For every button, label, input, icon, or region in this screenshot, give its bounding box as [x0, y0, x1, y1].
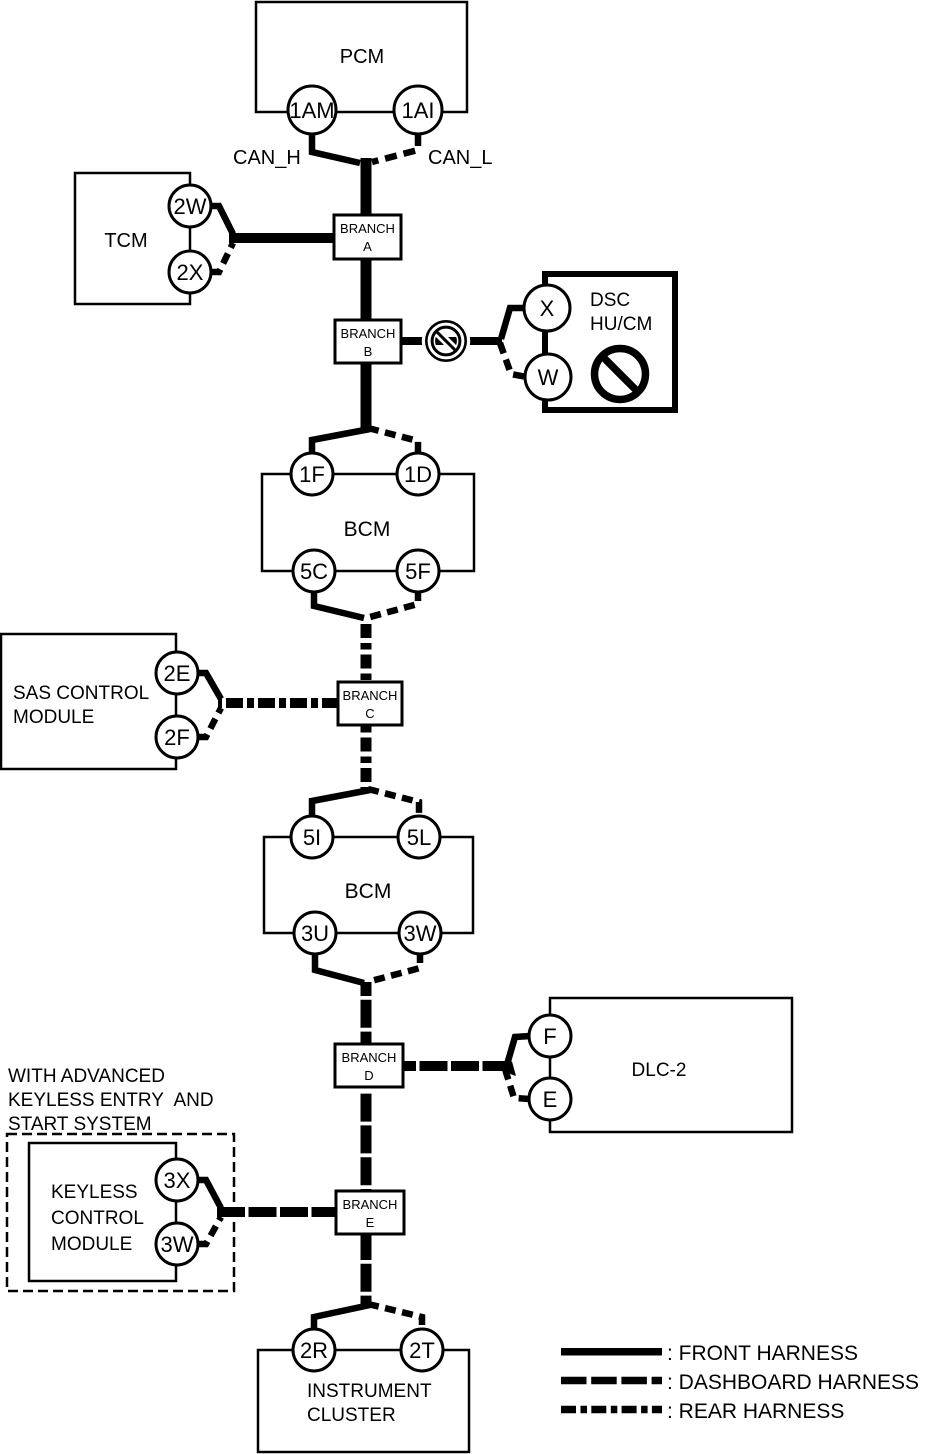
svg-text:CAN_H: CAN_H: [233, 147, 301, 169]
svg-text:2F: 2F: [164, 725, 190, 750]
svg-text:HU/CM: HU/CM: [590, 314, 652, 335]
svg-text:1AM: 1AM: [289, 98, 334, 123]
svg-text:1AI: 1AI: [401, 98, 434, 123]
svg-text:2E: 2E: [164, 661, 191, 686]
svg-text:1D: 1D: [404, 462, 432, 487]
svg-text:E: E: [366, 1215, 375, 1230]
svg-text:BCM: BCM: [344, 518, 391, 541]
svg-text:DLC-2: DLC-2: [632, 1060, 687, 1081]
svg-text:: FRONT HARNESS: : FRONT HARNESS: [667, 1342, 858, 1365]
svg-text:BCM: BCM: [345, 880, 392, 903]
svg-text:: DASHBOARD HARNESS: : DASHBOARD HARNESS: [667, 1371, 919, 1394]
svg-text:2X: 2X: [177, 260, 204, 285]
svg-text:CLUSTER: CLUSTER: [307, 1405, 396, 1426]
svg-text:CAN_L: CAN_L: [428, 147, 492, 169]
svg-text:2W: 2W: [174, 194, 207, 219]
svg-text:5F: 5F: [405, 559, 431, 584]
svg-text:2R: 2R: [300, 1338, 328, 1363]
svg-text:WITH ADVANCED: WITH ADVANCED: [8, 1066, 165, 1087]
svg-text:3U: 3U: [301, 921, 329, 946]
svg-text:DSC: DSC: [590, 290, 630, 311]
svg-text:MODULE: MODULE: [51, 1234, 132, 1255]
svg-text:3W: 3W: [404, 921, 437, 946]
svg-text:C: C: [365, 706, 374, 721]
svg-text:E: E: [543, 1087, 558, 1112]
svg-text:5C: 5C: [300, 559, 328, 584]
svg-text:MODULE: MODULE: [13, 707, 94, 728]
svg-text:BRANCH: BRANCH: [341, 326, 396, 341]
svg-text:KEYLESS: KEYLESS: [51, 1182, 138, 1203]
svg-text:SAS CONTROL: SAS CONTROL: [13, 683, 149, 704]
svg-text:BRANCH: BRANCH: [342, 1050, 397, 1065]
svg-text:1F: 1F: [299, 462, 325, 487]
svg-text:START SYSTEM: START SYSTEM: [8, 1114, 152, 1135]
svg-text:D: D: [364, 1068, 373, 1083]
svg-text:5L: 5L: [407, 825, 431, 850]
svg-text:INSTRUMENT: INSTRUMENT: [307, 1381, 432, 1402]
svg-text:5I: 5I: [303, 825, 321, 850]
svg-text:B: B: [364, 344, 373, 359]
svg-text:PCM: PCM: [340, 46, 384, 68]
svg-text:BRANCH: BRANCH: [343, 688, 398, 703]
svg-text:: REAR HARNESS: : REAR HARNESS: [667, 1400, 844, 1423]
svg-text:F: F: [543, 1024, 556, 1049]
svg-text:2T: 2T: [409, 1338, 435, 1363]
svg-text:BRANCH: BRANCH: [343, 1197, 398, 1212]
svg-text:W: W: [538, 365, 559, 390]
svg-text:A: A: [363, 239, 372, 254]
svg-text:TCM: TCM: [104, 230, 147, 252]
svg-text:BRANCH: BRANCH: [340, 221, 395, 236]
svg-text:CONTROL: CONTROL: [51, 1208, 144, 1229]
svg-text:X: X: [540, 296, 555, 321]
svg-text:KEYLESS ENTRY AND: KEYLESS ENTRY AND: [8, 1090, 214, 1111]
svg-text:3W: 3W: [161, 1232, 194, 1257]
svg-text:3X: 3X: [164, 1168, 191, 1193]
